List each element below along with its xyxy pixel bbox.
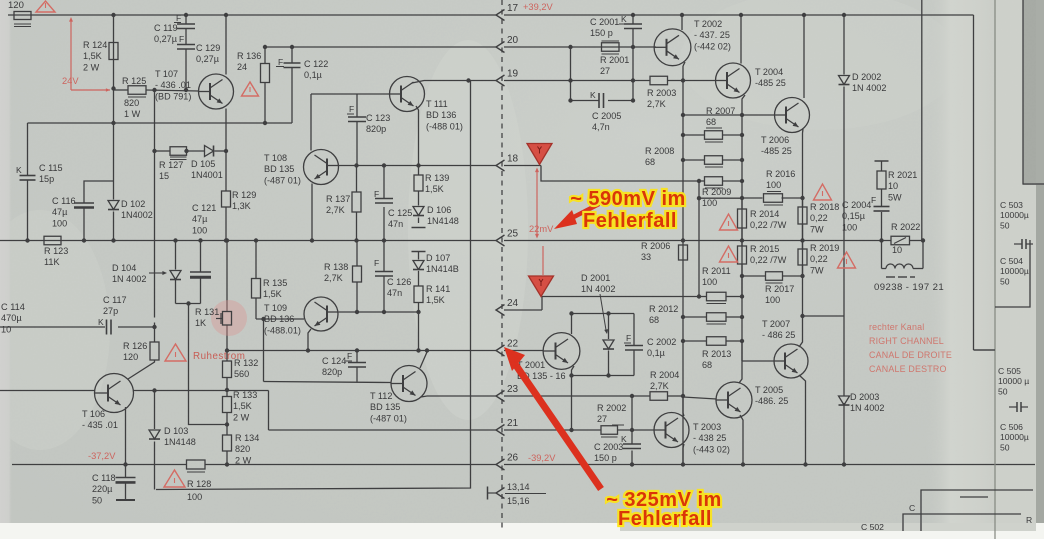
- resistor R2017: [766, 272, 783, 281]
- terminal 21: [496, 425, 505, 436]
- wire horizontal y123 top-left: [28, 122, 293, 124]
- wire C126 column: [383, 241, 385, 272]
- wire R137 column: [356, 166, 358, 193]
- wire top-right corner to fold: [974, 349, 996, 351]
- resistor R128 inline: [187, 460, 206, 469]
- capacitor C505 symbol: [1009, 406, 1017, 408]
- transistor T2004: [716, 63, 751, 98]
- wire T109 left lead: [256, 318, 304, 320]
- wire left rail x154.5: [154, 90, 156, 151]
- diode D103: [149, 430, 160, 439]
- second page box corner B: [974, 349, 996, 351]
- pointer line D2001: [600, 294, 606, 330]
- wire T2003 emitter: [683, 444, 684, 465]
- transistor T2005: [716, 382, 752, 418]
- wire R132 column: [226, 351, 228, 362]
- wire net21 riser: [268, 391, 270, 431]
- junction dots: [111, 13, 115, 17]
- transistor T2001: [543, 333, 580, 370]
- resistor R133: [223, 397, 232, 413]
- wire T2005 base to R2004 node: [683, 397, 717, 399]
- capacitor C2003: [623, 443, 641, 445]
- wire T2003 collector: [683, 396, 684, 416]
- transistor T111: [390, 77, 425, 112]
- terminal 22: [496, 345, 505, 356]
- transistor T2003: [654, 413, 689, 448]
- ladder rung R2012 row: [683, 316, 707, 318]
- diode D2003: [839, 396, 850, 405]
- resistor R2018: [798, 207, 807, 224]
- ladder rung R2016 row: [742, 197, 763, 199]
- wire R138 column: [356, 241, 358, 267]
- wire C118 below bus: [125, 465, 127, 478]
- resistor R2013: [707, 337, 727, 346]
- red measure line 18-25: [536, 170, 538, 236]
- wire T2007 base: [741, 341, 743, 361]
- svg-text:C 502: C 502: [861, 522, 884, 532]
- wire T2004 emitter / rail B top: [742, 95, 745, 135]
- resistor R2012: [707, 313, 727, 322]
- resistor R126: [150, 342, 159, 360]
- wire R2022 loop: [881, 241, 883, 269]
- warning triangle R2014: [720, 214, 738, 230]
- resistor R2003 inline: [650, 76, 668, 85]
- wire D2001 branch: [608, 314, 610, 340]
- resistor R125: [128, 86, 146, 95]
- terminal 24: [496, 305, 505, 316]
- wire net 13/14 return: [156, 81, 471, 490]
- wire T107 emitter / R127 node: [225, 109, 227, 152]
- resistor R2016: [764, 194, 783, 203]
- diode D2001: [603, 340, 614, 349]
- ladder rung R2011 row: [699, 296, 707, 298]
- diode D106: [413, 207, 424, 216]
- diode D102: [108, 201, 119, 210]
- wire T112 emitter to net 23: [421, 396, 427, 397]
- wire T106 collector: [128, 360, 155, 379]
- diode D105: [205, 146, 214, 157]
- wire T107 collector: [225, 15, 227, 75]
- wire T106 emitter / C118 column: [125, 407, 127, 465]
- paper sheen highlights: [408, 40, 528, 420]
- wire T2007 collector: [799, 316, 803, 347]
- warning triangle top-left: [36, 1, 55, 12]
- resistor R138: [353, 266, 362, 282]
- red highlight blob on R131: [211, 300, 247, 336]
- inductor core dashes: [886, 276, 895, 278]
- scan left edge shading: [0, 0, 12, 539]
- wire C115 branch: [27, 123, 29, 176]
- wire C125 column: [383, 166, 385, 199]
- resistor R123 inline: [44, 236, 61, 245]
- transistor T106: [95, 374, 134, 413]
- warning triangle Ruhestrom: [165, 344, 186, 361]
- wire net 22 rail (bias rail): [227, 350, 496, 352]
- resistor 120 (top left, inline): [14, 12, 31, 20]
- wire T111 emitter column: [416, 106, 419, 166]
- wire +39.2V top rail (net 17): [8, 14, 496, 16]
- rail A x683: [682, 81, 684, 465]
- terminal 13,14 / 15,16: [496, 488, 505, 499]
- resistor R139: [414, 175, 423, 191]
- ladder rung R2013 row: [683, 340, 707, 342]
- resistor R2006 inline rail A: [679, 245, 688, 260]
- wire D103 column: [154, 391, 156, 430]
- wire C2004 to net25: [881, 212, 883, 241]
- wire T108 emitter column: [311, 184, 313, 241]
- resistor R2007: [705, 131, 723, 140]
- wire C123 top rail: [311, 93, 390, 95]
- capacitor C125: [375, 198, 393, 200]
- wire R133/R134 tap to D104 rail: [189, 304, 228, 425]
- wire C116 branch: [84, 181, 114, 203]
- open terminal T-bar D106: [412, 227, 426, 229]
- wire x419 link rail312-rail350: [418, 312, 420, 351]
- wire net 19: [424, 80, 496, 82]
- wire R2009 to R2016 row link: [698, 181, 700, 297]
- capacitor C118 electrolytic: [116, 477, 136, 479]
- capacitor C2004: [874, 206, 890, 208]
- open terminal T-bar R2021: [875, 160, 889, 162]
- diode D104: [170, 271, 181, 280]
- ladder rung R2008 row: [683, 159, 705, 161]
- wire C2001 column: [632, 15, 634, 24]
- wire net 18: [339, 165, 496, 167]
- dashed page split line: [501, 0, 503, 530]
- transistor T108: [304, 150, 339, 185]
- resistor R2004 inline: [650, 392, 668, 401]
- terminal 17: [496, 10, 505, 21]
- wire T112 base rail: [264, 382, 392, 383]
- resistor R2001 inline: [602, 43, 620, 52]
- wire C117 branch: [0, 326, 105, 328]
- warning triangle R2019: [838, 252, 856, 268]
- wire C2005 row: [571, 100, 600, 102]
- trimmer R131: [223, 312, 232, 326]
- wire T109 base rail y312: [339, 311, 419, 313]
- wire R127 D105 row: [155, 150, 171, 152]
- terminal 20: [496, 42, 505, 53]
- wire net 21: [269, 429, 497, 431]
- wire T2001 collector / D2001 loop top rail: [572, 313, 635, 315]
- wire R131 column: [226, 241, 228, 312]
- warning triangle R2018: [814, 184, 832, 200]
- wire net 18 drop to ladder: [541, 166, 699, 182]
- wire net 24 riser to fault triangle: [541, 297, 543, 311]
- warning triangle R2015: [720, 246, 738, 262]
- capacitor C2005: [598, 93, 600, 108]
- wire D2002 column: [843, 15, 845, 75]
- wire T2007 emitter: [799, 375, 806, 465]
- wire R2021 column: [881, 161, 883, 171]
- transistor T107: [199, 74, 234, 109]
- diode D107: [413, 261, 424, 270]
- wire R134 column: [226, 425, 228, 436]
- capacitor C126: [375, 271, 393, 273]
- resistor R2009: [705, 177, 723, 186]
- capacitor C122: [284, 62, 301, 64]
- second page frame corner: [1023, 0, 1044, 184]
- wire prev-page vertical x921.8: [921, 0, 923, 241]
- wire D104 column: [175, 241, 177, 270]
- wire net 23: [427, 395, 496, 397]
- wire D2001 loop bottom rail: [572, 375, 635, 377]
- wire T108 collector column: [310, 94, 312, 151]
- wire C121 column: [200, 241, 202, 273]
- wire C119/C129 column: [185, 15, 187, 24]
- capacitor C121 electrolytic (below bus): [190, 271, 211, 273]
- wire T107 base: [114, 89, 129, 91]
- wire rail C R2018/R2019 segments: [802, 198, 804, 207]
- resistor R124: [109, 43, 118, 60]
- capacitor C2001: [624, 23, 642, 25]
- resistor R136: [261, 64, 270, 83]
- resistor R2014: [738, 209, 747, 228]
- resistor R2022 inline with slash: [891, 236, 910, 245]
- resistor R2019: [798, 249, 807, 265]
- wire C122 column: [291, 47, 293, 63]
- bottom right short line: [960, 496, 988, 498]
- resistor R127: [170, 147, 187, 156]
- annotation arrow 325mV: [513, 361, 601, 489]
- terminal 25: [496, 235, 505, 246]
- diode D2002: [839, 76, 850, 85]
- wire D104/C121 bottom rail: [176, 303, 201, 305]
- wire T2002 emitter to rail A: [683, 62, 685, 66]
- capacitor C503 symbol: [1014, 243, 1022, 245]
- wire T112 collector: [420, 351, 427, 369]
- resistor R2008: [705, 156, 723, 165]
- wire net 24: [504, 309, 542, 311]
- wire T112 base rail left riser: [263, 319, 265, 382]
- fault triangle at net 18: [527, 144, 552, 165]
- wire rail B R2014/R2015 segments: [741, 198, 743, 209]
- wire net 20: [265, 46, 496, 48]
- capacitor C116 electrolytic: [74, 202, 94, 204]
- wire net 25 bus: [0, 240, 496, 242]
- capacitor C117: [106, 320, 108, 335]
- transistor T2007: [774, 344, 808, 378]
- resistor R2015: [738, 246, 747, 264]
- warning triangle R128: [164, 470, 185, 487]
- wire T2005 emitter: [740, 415, 743, 465]
- wire T2001 emitter: [572, 366, 575, 376]
- wire T2006 base row: [683, 114, 775, 116]
- resistor R2011: [707, 292, 727, 301]
- bottom white scanner band: [0, 523, 1044, 539]
- wire T2001 emitter column to net21: [571, 376, 573, 431]
- transistor T2006: [775, 98, 810, 133]
- page fold light band: [925, 0, 997, 539]
- wire R124 column: [113, 15, 115, 89]
- wire R136 column: [264, 47, 266, 64]
- wire C124 branch: [356, 351, 358, 363]
- wire top-right corner down: [973, 15, 975, 350]
- resistor R134: [223, 435, 232, 451]
- transistor T2002: [654, 29, 691, 66]
- capacitor C129: [177, 44, 195, 46]
- capacitor C2002: [625, 345, 643, 347]
- wire D2003 column: [843, 316, 845, 396]
- capacitor C115: [20, 175, 36, 177]
- capacitor C124: [348, 362, 366, 364]
- ladder rung R2009 row: [699, 180, 705, 182]
- resistor R135: [252, 279, 261, 299]
- resistor R2002 inline: [601, 426, 618, 435]
- wire T2004 collector: [740, 15, 742, 64]
- red 24V feed line: [70, 20, 72, 90]
- wire T2006 emitter / rail C: [802, 129, 805, 316]
- wire net 24 to ladder: [542, 296, 699, 298]
- wire T111 collector: [412, 81, 424, 84]
- terminal 18: [496, 160, 505, 171]
- wire C2002 branch: [633, 314, 635, 346]
- transistor T112: [391, 366, 427, 402]
- resistor R129: [222, 191, 231, 207]
- wire T2002 collector: [681, 15, 683, 30]
- wire R133 column: [226, 390, 228, 397]
- wire D102 column: [113, 89, 115, 200]
- transistor T109: [304, 297, 338, 331]
- wire C2003 column: [631, 396, 633, 430]
- capacitor C119: [177, 23, 195, 25]
- wire x570.5 rail: [570, 47, 572, 101]
- second page box corner A: [995, 240, 1030, 307]
- wire net 26 bus -39.2V: [12, 464, 187, 466]
- open terminal T-bar D107: [412, 251, 426, 253]
- inductor 09238-197.21 humps: [886, 264, 913, 269]
- fault triangle at net 24: [529, 276, 554, 297]
- resistor R137: [352, 192, 361, 212]
- resistor R141: [414, 286, 423, 303]
- terminal 23: [496, 391, 505, 402]
- rail B x742: [741, 135, 743, 341]
- warning triangle R136: [242, 82, 259, 96]
- second page left boundary line: [994, 0, 996, 539]
- wire rail C to D2003 column: [803, 315, 845, 317]
- right edge dark strip: [1036, 185, 1044, 539]
- ladder rung R2017 row: [742, 275, 766, 277]
- terminal 19: [496, 75, 505, 86]
- wire D107/R141 column: [418, 252, 420, 260]
- wire T2005 top lead: [739, 341, 742, 383]
- wire T2006 collector: [803, 15, 805, 98]
- second page column background: [995, 0, 1044, 539]
- annotation arrow 590mV: [566, 204, 599, 221]
- wire C123 column: [356, 94, 358, 117]
- second page dark corner block: [1023, 0, 1044, 185]
- wire T106 base rail: [0, 390, 95, 392]
- resistor R132: [223, 361, 232, 378]
- pointer arrow D104: [149, 272, 164, 274]
- bottom right frame lines: [921, 490, 1033, 531]
- ladder rung R2007 row: [683, 134, 705, 136]
- capacitor C123: [348, 116, 366, 118]
- terminal 26: [496, 459, 505, 470]
- wire T109 emitter: [308, 329, 311, 351]
- resistor R2021: [877, 171, 886, 189]
- wire R139/D106 column: [418, 166, 420, 176]
- red measure line 25-24: [542, 246, 544, 275]
- wire R135 column: [255, 241, 257, 279]
- wire R2001/C2005 column: [632, 47, 634, 81]
- wire R129 column: [225, 151, 227, 191]
